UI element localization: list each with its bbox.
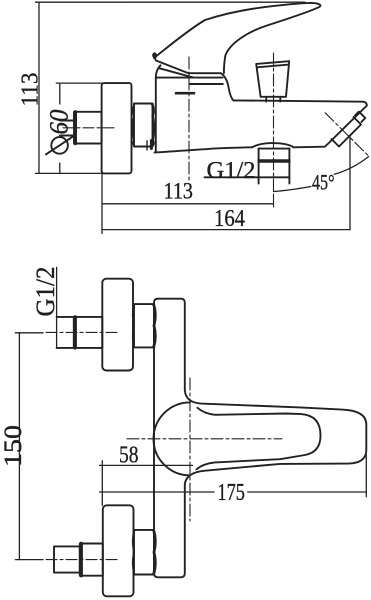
- body bar: [158, 299, 185, 390]
- handle outer outline: [185, 390, 366, 484]
- svg-text:113: 113: [164, 179, 194, 204]
- body detail thick line: [176, 92, 194, 95]
- svg-text:45°: 45°: [312, 170, 335, 195]
- svg-text:G1/2: G1/2: [207, 158, 256, 184]
- upper stub pipe: [57, 316, 74, 318]
- angle 45 leader: [274, 187, 312, 192]
- handle tip and underside: [224, 3, 321, 73]
- handle lower-left edge: [155, 59, 221, 73]
- dim 113 vertical line: [36, 2, 306, 173]
- connector nut side view: [134, 104, 153, 147]
- svg-text:175: 175: [217, 479, 245, 506]
- extension handle tip: [365, 455, 367, 497]
- eccentric fitting side view: [74, 112, 102, 144]
- handle butt curl: [153, 53, 157, 59]
- wall flange side view: [102, 83, 132, 173]
- upper flange: [102, 279, 133, 371]
- label Ø60 diameter symbol: [51, 137, 68, 154]
- svg-text:60: 60: [45, 110, 74, 135]
- G1/2 leader line: [56, 267, 58, 348]
- extension wall plane: [101, 461, 103, 506]
- cartridge dome: [154, 402, 191, 475]
- dim Ø60: [56, 83, 101, 173]
- nut corner detail: [146, 141, 148, 150]
- handle lever top edge: [154, 3, 311, 58]
- dim 175: [100, 491, 215, 493]
- valve centerline vertical bottom view: [189, 378, 191, 521]
- cap lower slant: [160, 68, 194, 77]
- valve centerline horizontal bottom view: [127, 438, 282, 440]
- lower stub pipe: [54, 546, 80, 572]
- dim 150: [18, 333, 20, 560]
- G1/2 underline and outlet bottom: [205, 176, 290, 178]
- body column side view: [155, 78, 157, 152]
- upper fitting: [74, 317, 103, 348]
- aerator centerline: [325, 113, 369, 156]
- lower nut: [134, 530, 154, 575]
- handle inner outline: [197, 408, 321, 470]
- knob centerline: [273, 53, 275, 196]
- upper port centerline: [15, 332, 43, 334]
- lower flange: [103, 505, 134, 596]
- spout outline: [233, 100, 367, 147]
- diverter knob: [256, 61, 289, 97]
- knob stem: [265, 97, 267, 102]
- lower port centerline: [15, 559, 43, 561]
- upper nut: [134, 304, 154, 347]
- dim 164: [102, 229, 350, 231]
- valve centerline side view: [188, 57, 190, 180]
- fitting bold left edge: [74, 112, 77, 144]
- inlet centerline: [63, 127, 116, 129]
- svg-text:G1/2: G1/2: [31, 267, 60, 317]
- lower fitting: [80, 544, 103, 576]
- inlet stub lines: [60, 120, 74, 122]
- svg-text:113: 113: [16, 73, 43, 107]
- svg-text:150: 150: [0, 425, 27, 467]
- cartridge cap arc: [156, 65, 161, 77]
- dim 58: [100, 464, 193, 466]
- aerator at 45 degrees: [332, 117, 362, 147]
- G1/2 shower outlet: [258, 149, 260, 184]
- dim 113 horizontal: [101, 171, 103, 234]
- svg-text:164: 164: [214, 206, 245, 232]
- svg-text:58: 58: [119, 442, 139, 469]
